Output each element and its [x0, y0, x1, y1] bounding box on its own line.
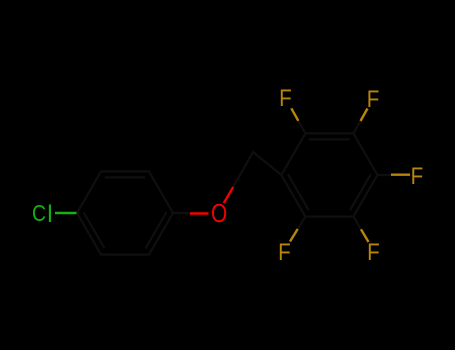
svg-text:F: F	[411, 163, 424, 190]
svg-text:F: F	[367, 85, 380, 112]
svg-text:F: F	[367, 239, 380, 266]
svg-text:F: F	[279, 85, 292, 112]
svg-text:O: O	[211, 199, 227, 228]
svg-text:F: F	[278, 239, 291, 266]
svg-text:C: C	[32, 200, 46, 226]
svg-text:l: l	[47, 201, 52, 228]
